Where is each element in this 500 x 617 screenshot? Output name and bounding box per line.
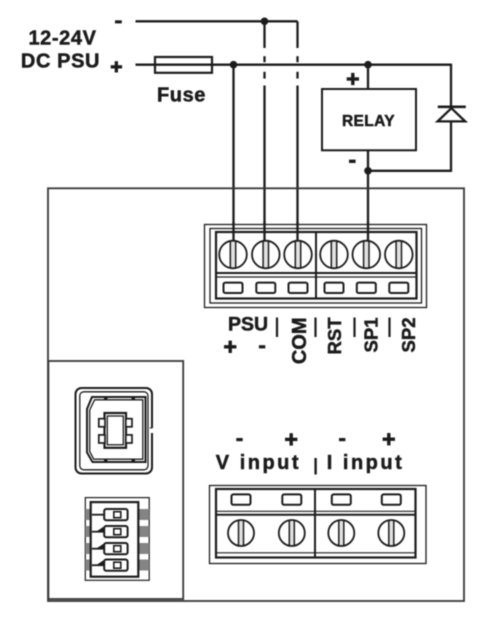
device outline xyxy=(48,188,464,601)
USB-B connector J1 xyxy=(76,388,154,474)
svg-text:DC PSU: DC PSU xyxy=(21,50,100,72)
label + (V input) xyxy=(285,433,297,445)
switch 2 xyxy=(92,526,128,537)
junction: positive rail to relay xyxy=(364,61,372,69)
separator bar 2 xyxy=(314,318,316,338)
switch 3 xyxy=(92,543,128,554)
relay plus sign xyxy=(347,73,359,85)
body xyxy=(91,502,139,577)
TB1 screw terminals xyxy=(219,241,247,269)
wire: relay bottom to SP1 terminal xyxy=(367,150,369,242)
separator bar 4 xyxy=(388,318,390,338)
wire: PSU positive rail xyxy=(136,64,452,66)
terminal block TB2 main body xyxy=(216,489,416,558)
TB2 screw terminals xyxy=(228,520,254,546)
label - (I input) xyxy=(339,438,345,441)
svg-text:SP1: SP1 xyxy=(361,318,382,353)
TB2 row divider lines xyxy=(216,510,416,512)
wire: negative drop to COM terminal (dashed at crossing) xyxy=(296,21,298,242)
svg-text:RELAY: RELAY xyxy=(342,113,395,130)
relay K1 xyxy=(322,89,416,150)
svg-text:12-24V: 12-24V xyxy=(28,27,96,49)
chamfered housing inner xyxy=(90,400,143,459)
svg-text:RST: RST xyxy=(324,317,345,355)
wire stubs into TB1 redrawn over frames xyxy=(234,222,369,242)
wire: diode branch lower xyxy=(450,121,452,171)
label + (PSU) xyxy=(224,341,236,353)
TB1 clamp windows xyxy=(224,283,243,293)
junction: positive rail to PSU+ xyxy=(230,61,238,69)
separator bar 1 xyxy=(276,318,278,338)
PSU minus terminal sign xyxy=(115,20,122,23)
contact marks xyxy=(104,397,108,400)
TB1 group divider xyxy=(315,232,317,299)
PSU plus terminal sign xyxy=(111,61,122,72)
separator bar (inputs) xyxy=(314,458,316,475)
svg-text:V input: V input xyxy=(216,452,301,474)
centre tongue xyxy=(105,413,127,448)
wire: diode branch upper xyxy=(450,64,452,107)
wire: bottom run to diode xyxy=(368,170,451,172)
wire: drop to PSU+ terminal xyxy=(232,65,234,242)
DIP switch SW1 xyxy=(85,498,149,581)
outer frame xyxy=(85,498,149,581)
switch 1 xyxy=(92,509,128,520)
junction on negative rail xyxy=(261,18,269,26)
terminal block TB1 second frame xyxy=(210,229,422,304)
svg-text:Fuse: Fuse xyxy=(157,85,206,107)
wire: relay top feed xyxy=(367,65,369,89)
TB2 group divider xyxy=(314,489,316,558)
outer shell xyxy=(76,388,153,474)
wire: PSU negative rail xyxy=(136,20,298,22)
switch 4 xyxy=(92,560,128,571)
separator bar 3 xyxy=(353,318,355,338)
terminal block TB1 (top) outer frame xyxy=(205,225,427,308)
svg-text:COM: COM xyxy=(289,318,311,365)
fuse F1 xyxy=(155,57,212,73)
terminal block TB1 main body xyxy=(216,232,417,299)
shell notch xyxy=(150,428,153,433)
left pins xyxy=(85,509,90,571)
label - (V input) xyxy=(236,438,242,441)
svg-text:SP2: SP2 xyxy=(398,318,419,353)
pin bumps xyxy=(99,419,105,427)
terminal block TB2 (bottom) outer frame xyxy=(210,486,427,564)
label + (I input) xyxy=(383,433,395,445)
svg-text:PSU: PSU xyxy=(228,314,268,336)
right pins xyxy=(138,509,149,571)
junction: relay bottom / diode xyxy=(364,167,372,175)
interface sub-panel xyxy=(48,361,183,599)
TB1 row divider lines xyxy=(216,272,417,274)
diode D1 (flyback) xyxy=(438,107,466,122)
relay minus sign xyxy=(349,160,356,163)
TB2 clamp windows xyxy=(232,494,251,504)
svg-text:I input: I input xyxy=(327,452,404,474)
chamfered housing outer xyxy=(87,397,146,462)
wire: negative drop to PSU- terminal (dashed at crossing) xyxy=(263,21,265,242)
label - (PSU) xyxy=(259,345,265,348)
